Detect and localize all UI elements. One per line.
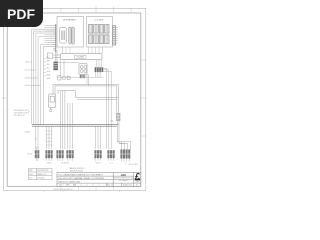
svg-text:CN-P5: CN-P5 <box>96 162 101 164</box>
margin tick <box>6 109 8 111</box>
relay K201 <box>88 25 109 34</box>
svg-text:1: 1 <box>89 189 90 191</box>
wire header to CN3 <box>55 53 57 62</box>
terminal block TB1 <box>48 53 61 59</box>
svg-text:1 2 3: 1 2 3 <box>109 162 113 164</box>
connector P2 <box>45 150 52 164</box>
brace <box>27 110 30 113</box>
svg-text:CN-K1: CN-K1 <box>47 162 52 164</box>
annotation text 2 <box>25 131 37 141</box>
svg-text:1 4: 1 4 <box>124 163 126 165</box>
wire bundle left <box>32 25 56 124</box>
zone ticks <box>2 6 146 192</box>
border frame outer <box>4 8 146 190</box>
connector body splits <box>35 153 131 155</box>
company cell <box>113 173 134 182</box>
svg-text:LCD UNIT: LCD UNIT <box>94 19 104 21</box>
annotation text block <box>14 109 29 117</box>
wire tick marks <box>46 131 52 145</box>
heater R1 <box>80 75 85 78</box>
svg-text:CN-C AZUL 6P: CN-C AZUL 6P <box>14 114 26 117</box>
small motor M1 <box>58 76 71 80</box>
connector CN100 <box>61 54 103 60</box>
svg-text:ESQ. ELECTRICO GENERAL UNIDAD: ESQ. ELECTRICO GENERAL UNIDAD LCD PRINCI… <box>59 177 104 180</box>
pdf badge <box>0 0 43 27</box>
svg-text:5859 EL 1032 REV B: 5859 EL 1032 REV B <box>54 189 74 191</box>
title block <box>57 173 141 187</box>
net labels <box>47 57 51 80</box>
legend text <box>29 170 49 179</box>
connector P1 <box>35 147 40 161</box>
svg-text:PDF: PDF <box>7 6 35 22</box>
connector P4 <box>61 150 73 164</box>
svg-text:CN1: CN1 <box>29 174 32 176</box>
component X1 <box>49 94 56 112</box>
svg-text:DOC. LAVADORA AUTOMATICA LCD T: DOC. LAVADORA AUTOMATICA LCD T-7000 SERI… <box>59 173 103 176</box>
border frame inner <box>7 13 141 186</box>
legend table <box>29 169 53 180</box>
svg-text:ABK: ABK <box>121 173 127 177</box>
net stub wires <box>44 59 47 77</box>
svg-text:DIB: DIB <box>59 185 62 187</box>
svg-text:K2 WHITE: K2 WHITE <box>61 162 69 164</box>
svg-text:ESC 1:1: ESC 1:1 <box>107 185 113 187</box>
svg-text:REV: REV <box>66 185 69 187</box>
connector CN2 <box>95 67 104 72</box>
svg-text:DESCRIPCION: DESCRIPCION <box>37 170 49 172</box>
header J101 <box>55 24 57 53</box>
bus wires <box>32 125 118 127</box>
svg-text:REF: REF <box>29 170 32 172</box>
title block text <box>59 173 104 183</box>
lcd unit box U200 <box>87 17 113 48</box>
vertical wires to connectors <box>36 91 101 149</box>
wire <box>57 50 103 77</box>
connector J203 <box>113 26 118 46</box>
wire stubs to CN100 <box>63 47 103 54</box>
svg-text:GRIS: GRIS <box>47 78 51 80</box>
wire loop bus right <box>53 84 118 113</box>
pin labels <box>24 62 30 87</box>
inline connector CN7 <box>117 113 120 121</box>
svg-text:CN2: CN2 <box>29 177 32 179</box>
connector P5 <box>94 150 101 164</box>
connector P6 <box>107 150 114 164</box>
svg-text:11: 11 <box>50 46 52 48</box>
svg-text:WHT: WHT <box>47 60 51 62</box>
revision note <box>69 167 84 172</box>
svg-text:DIBUJO No. 5859 EL 1032: DIBUJO No. 5859 EL 1032 <box>59 181 81 183</box>
svg-text:CN7: CN7 <box>110 121 113 123</box>
connector P7 <box>120 150 130 165</box>
svg-text:CN-J4: CN-J4 <box>27 154 32 156</box>
wire CN2 to group6 <box>82 60 112 149</box>
ic U101 <box>60 28 66 44</box>
svg-text:MOTHERBRD: MOTHERBRD <box>63 19 76 21</box>
stub wires <box>30 62 41 86</box>
relay K202 <box>88 35 109 44</box>
pin numbers J101 <box>50 26 52 48</box>
motherboard box U100 <box>57 17 84 48</box>
wire to group7 <box>117 121 130 150</box>
buzzer BZ1 <box>79 64 87 74</box>
svg-text:CN-MAIN: CN-MAIN <box>77 56 85 59</box>
svg-text:NOTA 2: NOTA 2 <box>25 131 31 134</box>
svg-text:LCD-2 CN-4: LCD-2 CN-4 <box>128 164 138 166</box>
connector J102 <box>69 27 74 44</box>
connector P3 <box>56 150 63 161</box>
logo <box>134 171 141 183</box>
connector CN3 <box>53 62 58 71</box>
